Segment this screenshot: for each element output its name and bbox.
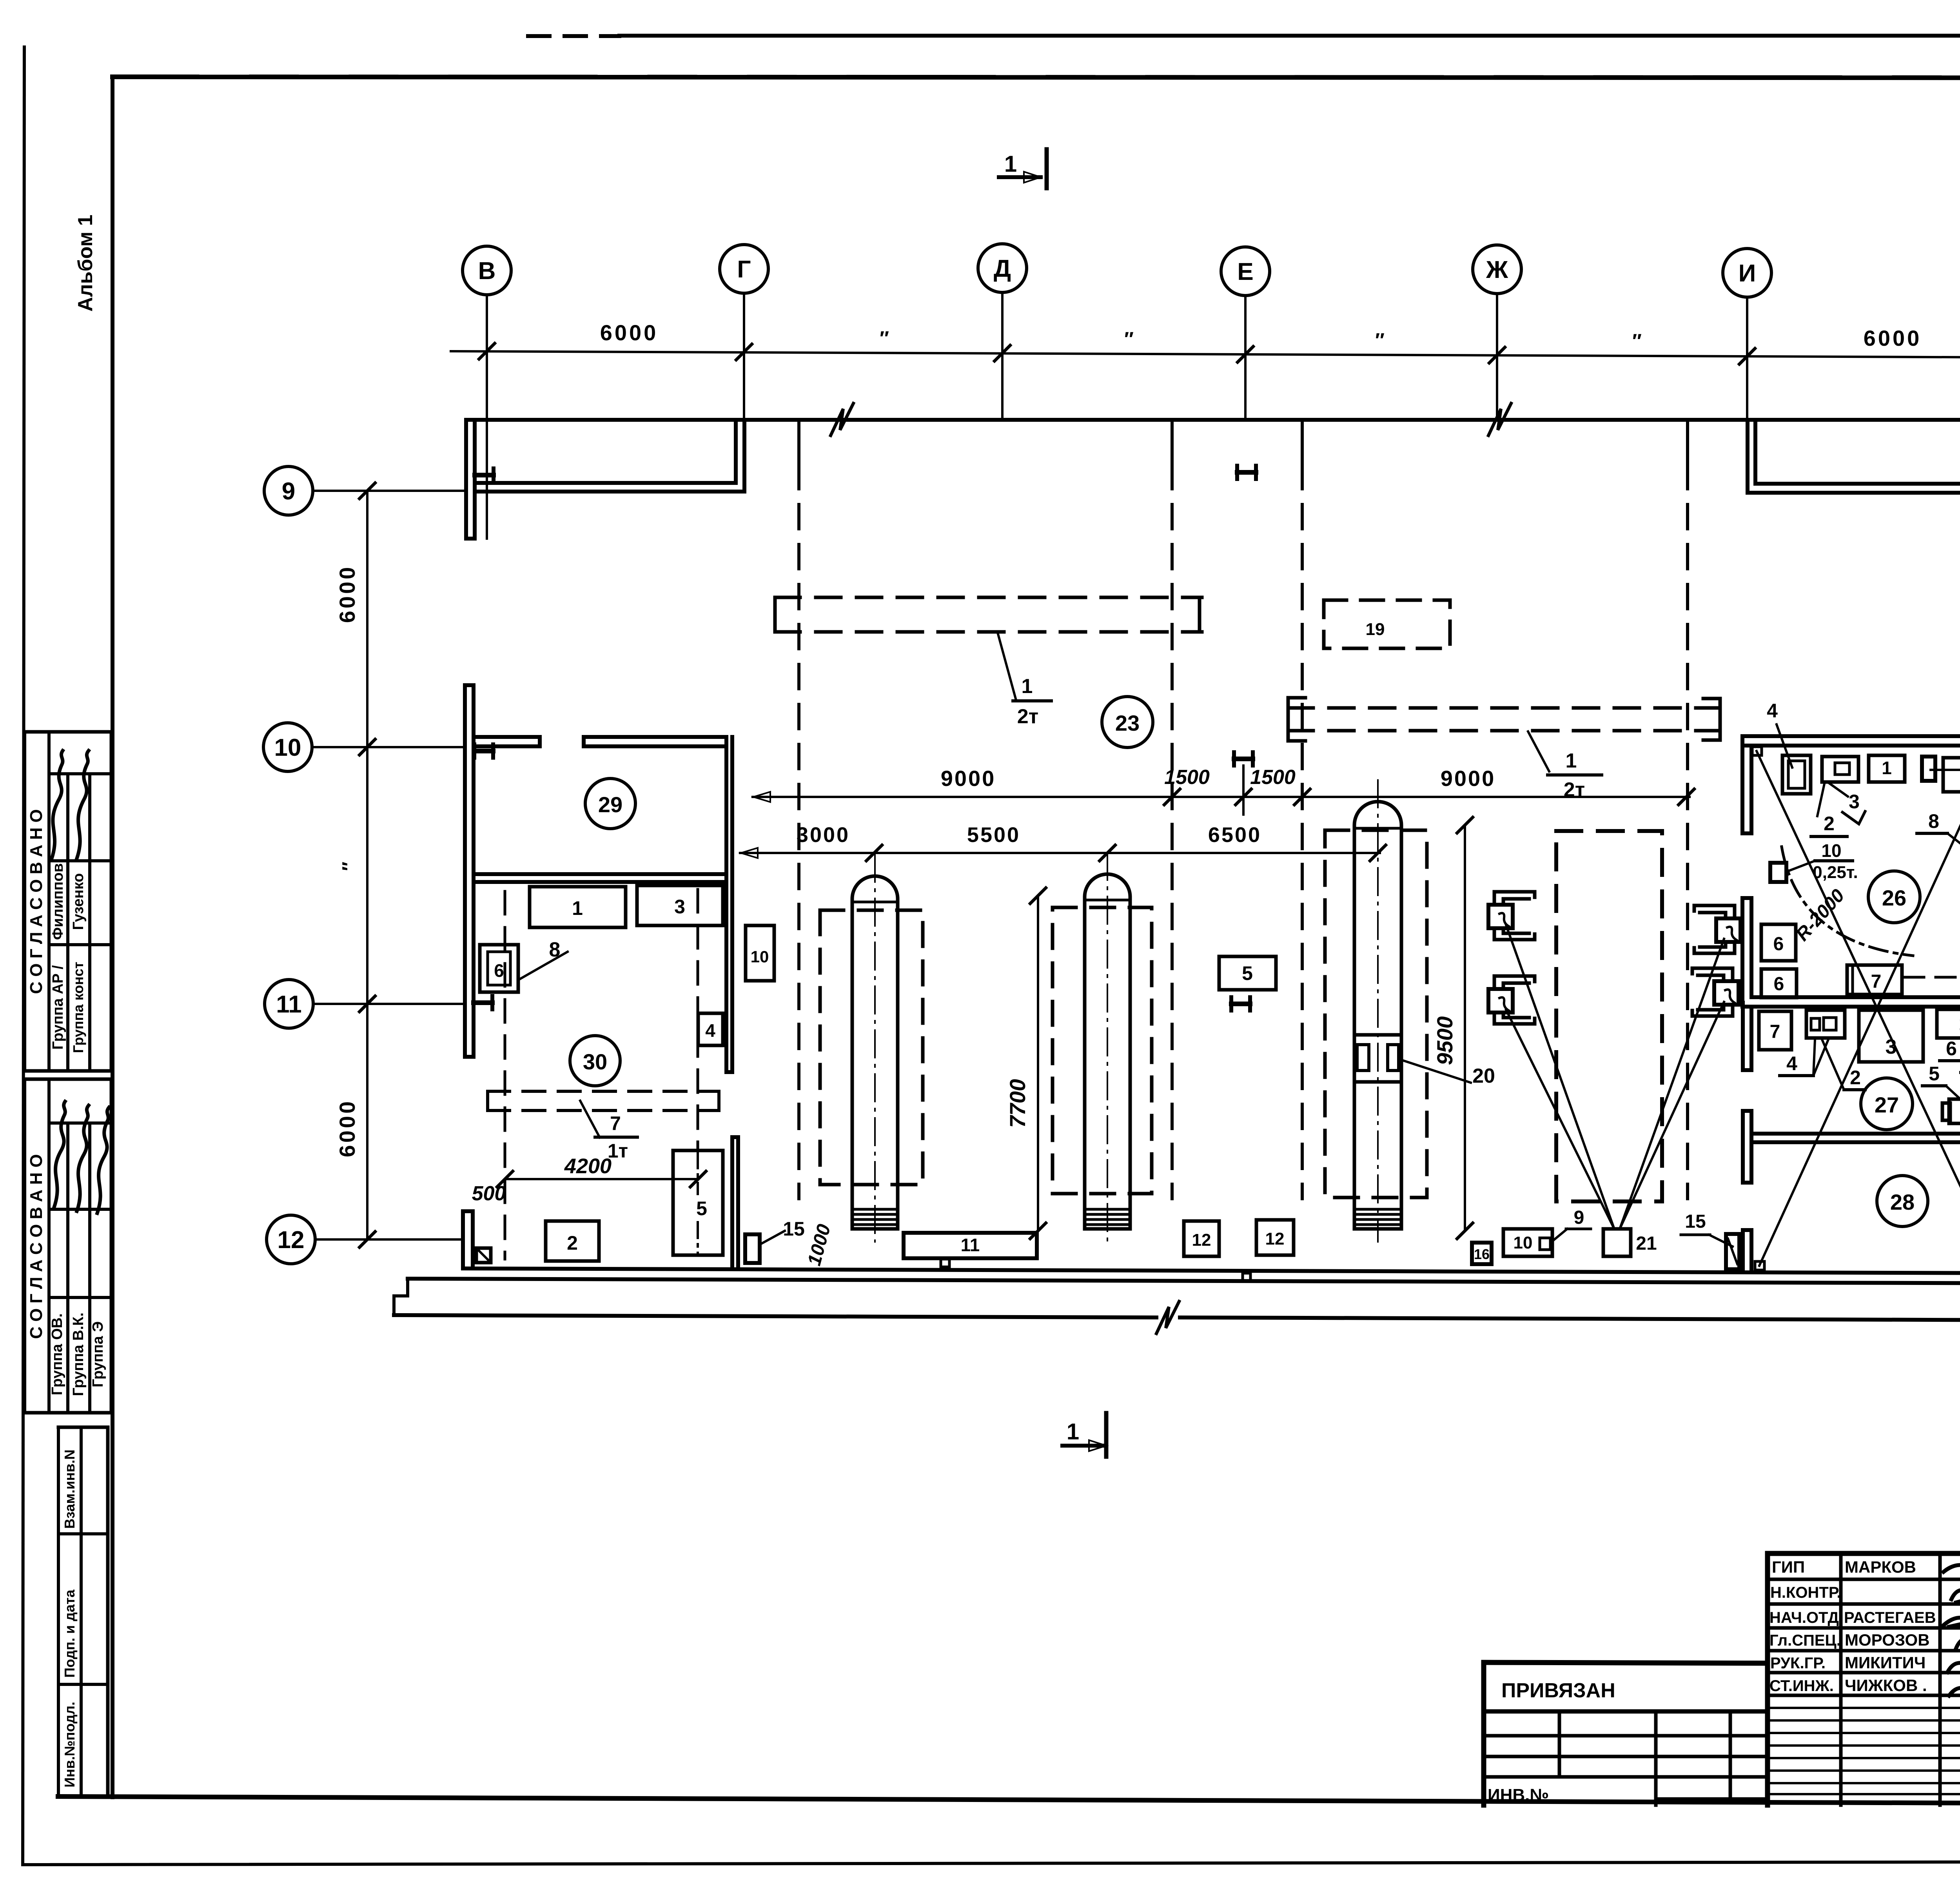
bottom wall stub near item 15 right <box>1741 1230 1745 1271</box>
room tag 29 <box>585 778 635 829</box>
svg-text:Инв.№подл.: Инв.№подл. <box>62 1702 78 1787</box>
axis circle 9 <box>264 466 313 515</box>
top dim tick В <box>479 343 495 359</box>
small square on wall <box>1243 1273 1250 1281</box>
box 2 <box>546 1221 599 1261</box>
leader to label 2 <box>1817 782 1825 816</box>
diagonal rope 1 <box>1757 751 1960 1262</box>
slewing arc R-2000 <box>1782 847 1913 956</box>
dim chain strip line <box>753 796 1690 798</box>
svg-text:″: ″ <box>1124 328 1134 350</box>
svg-text:7: 7 <box>1871 971 1882 992</box>
monorail beam 2 label leader <box>1528 731 1549 771</box>
vehicle outline at x=2825 <box>1085 874 1130 1229</box>
room 29 top wall left piece <box>475 735 540 739</box>
svg-text:2т: 2т <box>1017 705 1038 728</box>
jack stand at 3797,2263 <box>1494 892 1535 905</box>
svg-text:РУК.ГР.: РУК.ГР. <box>1770 1655 1826 1672</box>
svg-text:4200: 4200 <box>564 1154 612 1178</box>
svg-text:1: 1 <box>1067 1419 1079 1444</box>
jack stand at 3797,2478 <box>1494 976 1535 989</box>
dim chain strip ticks <box>1164 789 1180 805</box>
svg-text:МИКИТИЧ: МИКИТИЧ <box>1845 1653 1926 1672</box>
equipment 4 room30 <box>698 1013 723 1045</box>
dashed line room30 right <box>697 889 699 1149</box>
svg-text:6000: 6000 <box>335 1099 359 1158</box>
svg-text:Гл.СПЕЦ.: Гл.СПЕЦ. <box>1769 1632 1841 1649</box>
svg-text:7: 7 <box>610 1112 621 1134</box>
vehicle centerline x=2232 <box>874 855 876 1242</box>
hoist box 10 room26 <box>1770 863 1786 882</box>
monorail beam 1 right cap <box>1188 597 1200 632</box>
svg-text:2: 2 <box>567 1232 578 1254</box>
monorail beam 2 right cap <box>1703 699 1720 740</box>
svg-text:И: И <box>1739 260 1756 287</box>
dashed strip line x=2038 <box>797 421 800 465</box>
svg-text:2: 2 <box>1850 1067 1861 1089</box>
winch 21 <box>1603 1229 1631 1256</box>
svg-text:1: 1 <box>1882 758 1892 778</box>
svg-text:ГИП: ГИП <box>1772 1558 1805 1576</box>
section mark 1 bottom: underline <box>1062 1444 1105 1448</box>
rack 9 room26 <box>1943 758 1960 792</box>
top-right room left wall <box>1746 421 1749 493</box>
svg-text:РАСТЕГАЕВ: РАСТЕГАЕВ <box>1844 1609 1936 1626</box>
axis line 9 <box>313 490 466 492</box>
svg-text:1500: 1500 <box>1250 766 1296 789</box>
vehicle 3 platform equipment box <box>1354 1035 1401 1082</box>
bench 11 <box>904 1233 1037 1258</box>
room tag 27 <box>1861 1078 1913 1130</box>
crane rail symbol axis 10 <box>472 744 476 758</box>
svg-text:5: 5 <box>1929 1063 1940 1085</box>
top-right room bottom wall <box>1755 482 1960 486</box>
svg-text:Группа АР /: Группа АР / <box>50 965 66 1050</box>
paper edge top dashed start <box>528 34 619 38</box>
bench 7 room26 <box>1847 965 1902 994</box>
paper edge top solid <box>619 34 1960 38</box>
axis line Г <box>743 293 745 492</box>
svg-text:Подп. и дата: Подп. и дата <box>62 1589 78 1678</box>
room 26 left wall lower <box>1740 898 1744 1007</box>
svg-text:30: 30 <box>583 1049 607 1074</box>
axis circle 12 <box>267 1215 315 1264</box>
frame top line <box>113 77 1960 78</box>
svg-text:Н.КОНТР.: Н.КОНТР. <box>1770 1584 1841 1601</box>
approval block A signature 2 <box>77 751 89 858</box>
break symbol on top wall 2 <box>1488 403 1511 435</box>
svg-text:9: 9 <box>282 478 295 505</box>
top-left room bottom wall <box>475 481 736 485</box>
box 5 hall <box>1219 956 1276 990</box>
top dim tick Ж <box>1489 347 1505 363</box>
dashed line room30 left <box>504 891 506 1259</box>
room 29 top wall right piece <box>584 735 726 739</box>
svg-text:Взам.инв.N: Взам.инв.N <box>62 1450 78 1529</box>
box 12 a <box>1184 1221 1219 1256</box>
svg-text:6000: 6000 <box>1864 326 1922 350</box>
svg-text:0,25т.: 0,25т. <box>1813 863 1858 882</box>
section mark 1 top: arrow <box>1019 175 1041 179</box>
svg-text:1: 1 <box>1004 151 1017 177</box>
cabinet 6 lower room26 <box>1761 969 1797 998</box>
svg-text:В: В <box>478 258 496 285</box>
dim 7700 line <box>1037 896 1039 1231</box>
axis circle 11 <box>265 980 313 1028</box>
break symbol on top wall 1 <box>831 403 853 435</box>
staff table labeled row lines <box>1768 1578 1960 1581</box>
svg-text:8: 8 <box>549 938 561 961</box>
svg-text:Ж: Ж <box>1486 256 1508 283</box>
cabinet 5 centerline lower <box>697 1222 699 1254</box>
svg-text:Альбом 1: Альбом 1 <box>74 214 97 312</box>
vehicle grill lines x=3515 <box>1356 1208 1400 1211</box>
svg-text:15: 15 <box>783 1218 805 1240</box>
cabinet 6 room30 <box>480 945 518 992</box>
svg-text:9500: 9500 <box>1432 1016 1457 1065</box>
svg-text:СТ.ИНЖ.: СТ.ИНЖ. <box>1769 1677 1834 1695</box>
label 9 leader <box>1552 1229 1567 1242</box>
top dimension line <box>451 351 1960 357</box>
svg-text:4: 4 <box>705 1020 715 1041</box>
approval table block B row lines <box>49 1121 111 1125</box>
svg-text:МАРКОВ: МАРКОВ <box>1845 1558 1916 1576</box>
svg-text:Гузенко: Гузенко <box>70 873 87 930</box>
axis line Д <box>1001 292 1004 420</box>
axis circle Ж <box>1473 245 1521 294</box>
staff signatures <box>1944 1553 1960 1572</box>
left dimension line <box>366 491 368 1239</box>
monorail beam 1 top edge <box>775 596 1202 599</box>
axis circle Д <box>978 244 1027 292</box>
dim chain vehicles left arrow <box>741 848 758 858</box>
vehicle centerline x=2825 <box>1107 853 1108 1242</box>
label 15 left leader <box>760 1231 785 1245</box>
monorail beam 2 bottom edge <box>1288 729 1717 733</box>
axis circle Е <box>1221 247 1270 296</box>
svg-text:Д: Д <box>994 255 1011 282</box>
svg-text:Г: Г <box>737 256 751 283</box>
dashed service zone vehicle 1 <box>820 910 923 1185</box>
leader to label 3 <box>1828 782 1848 797</box>
svg-text:ПРИВЯЗАН: ПРИВЯЗАН <box>1501 1679 1615 1702</box>
axis circle 10 <box>263 723 312 771</box>
svg-text:Группа конст: Группа конст <box>70 962 86 1053</box>
dashed strip line x=4305 <box>1686 421 1689 465</box>
axis line Е <box>1244 296 1247 420</box>
vehicle centerline x=3515 <box>1377 780 1379 1242</box>
svg-text:″: ″ <box>338 862 360 871</box>
cabinet 7 room27 <box>1759 1011 1791 1050</box>
left outer wall <box>463 685 467 1057</box>
room 27 bottom wall <box>1751 1132 1960 1136</box>
svg-text:″: ″ <box>1632 330 1642 352</box>
svg-text:6: 6 <box>1773 934 1784 954</box>
approval block A signature 1 <box>52 751 63 858</box>
section mark 1 bottom: arrow <box>1089 1440 1106 1451</box>
svg-text:5: 5 <box>1242 962 1253 984</box>
svg-text:5: 5 <box>696 1198 707 1219</box>
cabinet 5 centerline upper <box>697 1152 699 1194</box>
dim 4200 line <box>505 1178 698 1180</box>
room 29 bottom wall <box>474 872 726 876</box>
dim chain vehicles line <box>740 852 1380 854</box>
svg-text:5500: 5500 <box>967 823 1020 847</box>
machine 3 room27 <box>1859 1010 1923 1062</box>
svg-text:11: 11 <box>276 991 302 1018</box>
jack stand mirrored at 4320,2298 <box>1694 905 1735 918</box>
label 8 leader <box>518 952 568 980</box>
frame left line <box>111 77 114 1797</box>
axis circle В <box>463 246 511 295</box>
equipment 15 left <box>745 1234 760 1263</box>
equipment 10 room30 <box>746 925 774 981</box>
approval block B signature 3 <box>97 1107 109 1213</box>
workbench 1 <box>530 887 626 927</box>
svg-text:1: 1 <box>1566 749 1577 772</box>
svg-text:1: 1 <box>1022 675 1033 698</box>
label 15 right leader <box>1709 1235 1733 1247</box>
machine with small square room26 <box>1822 757 1858 782</box>
machine with inner frame room26 <box>1782 755 1811 794</box>
paper edge bottom <box>23 1861 1960 1865</box>
crane rail symbol axis В <box>473 468 477 482</box>
axis line 12 <box>315 1238 463 1241</box>
svg-text:НАЧ.ОТД.: НАЧ.ОТД. <box>1769 1609 1843 1626</box>
break symbol on apron <box>1156 1301 1179 1334</box>
dashed service zone vehicle 3 <box>1325 830 1427 1198</box>
vehicle outline at x=3515 <box>1354 802 1401 1229</box>
bench 1 room27 <box>1937 1009 1960 1038</box>
svg-text:6000: 6000 <box>600 320 659 345</box>
monorail beam 2 top edge <box>1288 706 1717 710</box>
small box 13 <box>476 1248 491 1263</box>
svg-text:11: 11 <box>961 1235 980 1255</box>
svg-text:4: 4 <box>1786 1052 1797 1074</box>
axis line 10 <box>312 746 465 748</box>
crane rail symbol below box 5 <box>1229 997 1233 1011</box>
svg-text:1500: 1500 <box>1164 766 1210 789</box>
grinder bench room27 <box>1949 1099 1960 1123</box>
svg-text:9: 9 <box>1574 1207 1584 1228</box>
title block outer border <box>1768 1551 1960 1556</box>
monorail 7 dashed band <box>488 1090 719 1093</box>
box 16 <box>1472 1243 1492 1264</box>
crane rail symbol on axis Е at dim <box>1232 752 1236 766</box>
svg-text:3: 3 <box>674 896 685 918</box>
left dim tick 12 <box>359 1232 375 1247</box>
vehicle outline at x=2232 <box>852 876 898 1229</box>
top dim tick Д <box>995 345 1010 361</box>
svg-text:Филиппов: Филиппов <box>50 863 66 940</box>
box 12 b <box>1256 1220 1294 1255</box>
section mark 1 top: underline <box>999 175 1040 179</box>
svg-text:10: 10 <box>274 734 301 761</box>
monorail beam 2 left cap <box>1288 698 1305 741</box>
svg-text:1: 1 <box>1959 1014 1960 1034</box>
room tag 26 <box>1868 871 1920 923</box>
svg-text:Е: Е <box>1237 258 1253 285</box>
svg-text:26: 26 <box>1882 885 1906 910</box>
dim chain strip left arrow <box>753 792 770 802</box>
axis line В <box>486 295 488 539</box>
crane rail symbol axis Е top <box>1235 466 1239 479</box>
frame column block C <box>58 1426 108 1429</box>
svg-text:15: 15 <box>1685 1211 1706 1232</box>
svg-text:3000: 3000 <box>797 823 850 847</box>
bottom-left wall stub <box>461 1211 465 1268</box>
svg-text:27: 27 <box>1875 1092 1899 1117</box>
approval table block B frame <box>25 1078 111 1081</box>
svg-text:20: 20 <box>1472 1065 1495 1087</box>
svg-text:9000: 9000 <box>1441 766 1496 791</box>
svg-text:19: 19 <box>1366 620 1385 639</box>
svg-text:29: 29 <box>598 792 622 817</box>
room tag 23 <box>1102 697 1153 748</box>
workbench 3 <box>637 885 723 925</box>
apron bottom edge <box>394 1315 1156 1317</box>
top-left room left wall <box>464 421 468 539</box>
svg-text:ЧИЖКОВ .: ЧИЖКОВ . <box>1845 1676 1927 1695</box>
room 27 left wall stub lower <box>1741 1111 1745 1183</box>
section mark 1 top: bar <box>1045 149 1049 188</box>
label 2 leaders room27 <box>1822 1040 1844 1090</box>
svg-text:23: 23 <box>1115 711 1140 735</box>
approval block B signature 1 <box>54 1101 65 1207</box>
axis line 11 <box>313 1003 465 1005</box>
label 4 leader <box>1777 724 1792 768</box>
svg-text:10: 10 <box>1821 840 1841 861</box>
room 26 left wall upper <box>1740 736 1744 833</box>
svg-text:6: 6 <box>1774 974 1784 994</box>
svg-text:Группа ОВ.: Группа ОВ. <box>49 1313 65 1395</box>
svg-text:9000: 9000 <box>941 766 996 791</box>
dashed strip line x=2990 <box>1171 421 1174 465</box>
svg-text:10: 10 <box>1514 1233 1533 1252</box>
corner square bottom-left <box>1755 1261 1764 1270</box>
diagonal rope 2 <box>1759 751 1960 1266</box>
crane rail symbol axis 11 <box>472 996 475 1009</box>
svg-text:500: 500 <box>472 1182 506 1205</box>
svg-text:4: 4 <box>1767 700 1778 722</box>
rope line to lower-right stand <box>1620 1002 1724 1229</box>
room 26 bottom wall <box>1751 995 1960 999</box>
svg-text:2: 2 <box>1824 813 1835 835</box>
svg-text:10: 10 <box>751 947 769 966</box>
monorail beam 1 left cap <box>773 597 777 632</box>
svg-text:6000: 6000 <box>335 565 359 623</box>
small square below bench 11 <box>941 1259 949 1267</box>
rope line to upper-left stand <box>1506 925 1614 1229</box>
svg-text:8: 8 <box>1928 810 1939 832</box>
hoist beam 19 dashed box <box>1324 600 1450 648</box>
vehicle grill lines x=2232 <box>854 1208 896 1211</box>
svg-text:6: 6 <box>1946 1038 1957 1060</box>
left dim tick 10 <box>359 739 375 755</box>
approval block B signature 2 <box>77 1105 89 1211</box>
approval table block A frame <box>25 730 111 734</box>
monorail beam 1 label leader <box>998 633 1016 700</box>
room tag 28 <box>1877 1176 1928 1227</box>
svg-text:12: 12 <box>278 1227 305 1254</box>
frame bottom line <box>58 1796 1960 1805</box>
wall stub right of item 5 <box>730 1137 734 1268</box>
top-left room right wall on axis Г <box>734 421 738 483</box>
jack stand mirrored at 4315,2458 <box>1692 968 1733 981</box>
apron left step <box>394 1279 408 1315</box>
room 27 left wall stub upper <box>1741 1003 1745 1070</box>
axis line Ж <box>1496 294 1498 420</box>
rope line to upper-right stand <box>1620 939 1724 1229</box>
label 7/1т leader <box>580 1101 600 1138</box>
building top wall along axis 9 strip <box>466 418 1960 422</box>
label 20 leader <box>1403 1060 1471 1083</box>
svg-text:12: 12 <box>1192 1230 1211 1250</box>
dashed strip line x=3322 <box>1301 421 1304 465</box>
rope line to lower-left stand <box>1506 1010 1614 1229</box>
machine with two squares room27 <box>1806 1010 1845 1038</box>
dashed stand zone <box>1556 831 1662 1201</box>
left box grid verticals <box>1558 1711 1561 1777</box>
dim chain vehicles ticks <box>866 845 882 861</box>
building bottom wall <box>465 1268 1960 1273</box>
axis line И <box>1746 297 1748 420</box>
dim 9500 line <box>1464 825 1466 1231</box>
svg-text:С О Г Л А С О В А Н О: С О Г Л А С О В А Н О <box>27 809 46 994</box>
label 5 leader room27 <box>1946 1086 1960 1112</box>
equipment 15 right <box>1726 1234 1739 1269</box>
dashed service zone vehicle 2 <box>1053 907 1152 1194</box>
top dim tick Г <box>736 344 752 360</box>
svg-text:28: 28 <box>1890 1190 1915 1214</box>
staff table column lines <box>1839 1553 1843 1805</box>
vehicle grill lines x=2825 <box>1086 1208 1129 1211</box>
svg-text:3: 3 <box>1849 791 1860 813</box>
leader dash from 1 to 9 <box>1931 769 1960 771</box>
svg-text:Группа Э: Группа Э <box>90 1321 106 1388</box>
svg-text:″: ″ <box>880 327 889 349</box>
axis circle И <box>1723 249 1771 297</box>
label 4 leaders room27 <box>1813 1040 1815 1076</box>
approval table block A row lines <box>49 772 111 775</box>
top dim tick И <box>1739 348 1755 364</box>
left dim tick 11 <box>359 996 375 1012</box>
leader to hoist 10 <box>1788 861 1815 871</box>
left dim tick 9 <box>359 483 375 499</box>
monorail beam 1 bottom edge <box>775 630 1202 634</box>
svg-text:МОРОЗОВ: МОРОЗОВ <box>1845 1631 1930 1649</box>
box 10 bottom <box>1503 1229 1552 1256</box>
svg-text:6500: 6500 <box>1208 823 1261 847</box>
svg-text:″: ″ <box>1375 329 1385 351</box>
paper edge left <box>23 47 24 1865</box>
left box grid rows <box>1484 1734 1768 1738</box>
svg-text:ИНВ.№: ИНВ.№ <box>1488 1785 1549 1805</box>
axis circle Г <box>720 245 768 293</box>
bench 1 room26 <box>1869 755 1905 782</box>
cabinet 6 upper room26 <box>1761 924 1796 961</box>
section mark 1 bottom: bar <box>1104 1413 1109 1457</box>
svg-text:С О Г Л А С О В А Н О: С О Г Л А С О В А Н О <box>27 1154 46 1339</box>
svg-text:Группа В.К.: Группа В.К. <box>70 1312 87 1396</box>
label 8 leader room26 <box>1947 833 1960 855</box>
svg-text:1: 1 <box>572 897 583 919</box>
svg-text:7: 7 <box>1770 1022 1780 1042</box>
room 29-30 right wall <box>724 737 728 1072</box>
svg-text:16: 16 <box>1474 1246 1490 1262</box>
room 26 top wall <box>1742 734 1960 738</box>
dashed equipment axis room26 <box>1904 976 1960 979</box>
